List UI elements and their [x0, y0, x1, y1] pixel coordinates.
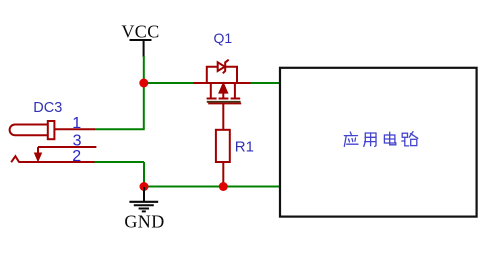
wire Q1 source-drain red lead — [194, 82, 251, 84]
wire junction to Q1 left lead — [144, 82, 194, 84]
svg-text:VCC: VCC — [121, 22, 159, 42]
wire ground rail to box — [144, 186, 280, 188]
wire Q1 right lead to application circuit box — [251, 82, 280, 84]
diode D body-diode loop — [207, 67, 218, 83]
DC3 barrel — [10, 125, 48, 136]
wire GND corner down — [143, 162, 145, 187]
wire Q1 gate to R1 — [222, 104, 224, 131]
svg-text:GND: GND — [124, 212, 164, 232]
svg-text:DC3: DC3 — [33, 100, 62, 116]
junction dot at GND node — [140, 182, 149, 191]
svg-text:2: 2 — [72, 148, 81, 165]
svg-text:1: 1 — [72, 115, 81, 132]
Q1 body arrow — [220, 84, 227, 93]
Q1 drain contact — [210, 83, 212, 98]
char lu 路 — [402, 132, 418, 146]
Q1 gate plate — [208, 103, 241, 105]
transistor Q1 — [194, 60, 251, 104]
wire DC3 pin3 red — [38, 146, 96, 148]
svg-text:R1: R1 — [235, 139, 254, 156]
svg-text:Q1: Q1 — [214, 30, 233, 46]
char yong 用 — [364, 133, 376, 146]
Q1 source contact — [234, 83, 236, 98]
resistor R1 — [216, 130, 230, 162]
wire DC3 pin1 red — [54, 128, 95, 130]
wire DC3 pin1 to VCC rail — [95, 128, 145, 130]
application circuit box — [280, 68, 477, 217]
wire R1 to ground rail — [222, 162, 224, 187]
junction dot at VCC node — [139, 79, 148, 88]
Q1 channel line — [207, 101, 241, 103]
wire VCC stem to junction — [143, 56, 145, 129]
wire DC3 pin2 red — [19, 161, 95, 163]
char dian 电 — [384, 132, 395, 145]
junction dot at R1 ground node — [219, 182, 228, 191]
DC3 sleeve chevron — [11, 156, 19, 162]
char ying 应 — [344, 132, 358, 146]
label 应用电路 — [344, 132, 418, 147]
connector DC3 — [10, 121, 97, 162]
ground symbol GND — [129, 187, 158, 211]
wire DC3 pin2 to GND corner — [94, 161, 144, 163]
DC3 switch arrow pin3 — [37, 147, 39, 154]
DC3 tip contact — [48, 121, 55, 139]
power symbol VCC — [121, 22, 159, 58]
